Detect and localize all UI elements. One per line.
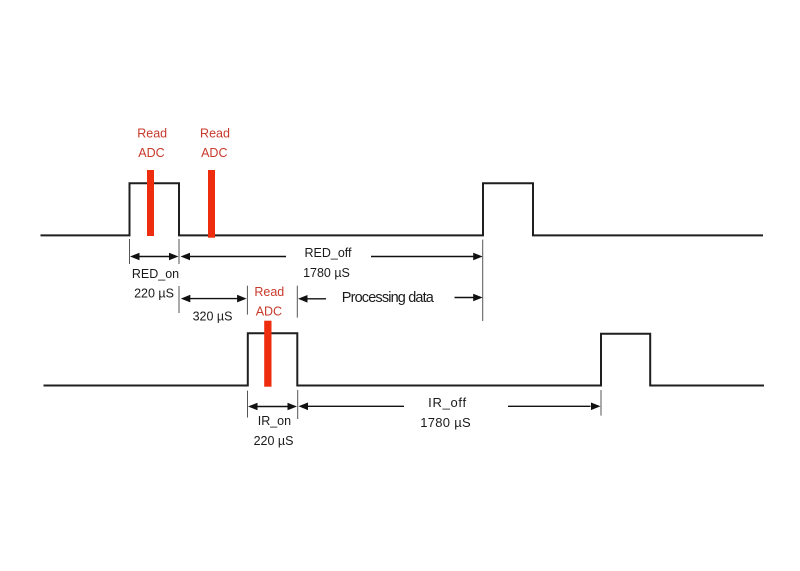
label Read ADC 3 (IR)	[254, 285, 284, 318]
svg-text:320 µS: 320 µS	[193, 310, 233, 324]
svg-text:Read: Read	[200, 126, 230, 140]
extension tick below IR pulse2 rise	[600, 390, 602, 416]
extension tick below IR pulse left edge	[247, 391, 249, 418]
label Read ADC 2	[200, 126, 230, 160]
red ADC sample bar 3 (IR)	[264, 321, 271, 387]
svg-text:RED_on: RED_on	[132, 267, 179, 281]
red ADC sample bar 1	[147, 170, 154, 236]
wire RED waveform	[41, 183, 764, 235]
svg-text:1780 µS: 1780 µS	[303, 266, 350, 280]
dimension arrow IR_off (left head + line, text gap, line + right head)	[299, 403, 601, 411]
extension tick for 320µS left	[178, 286, 180, 313]
svg-text:IR_on: IR_on	[258, 414, 291, 428]
svg-text:220 µS: 220 µS	[254, 434, 294, 448]
arrow processing-data left	[298, 295, 326, 303]
extension tick below RED pulse1 left edge	[129, 239, 131, 264]
extension tick below IR pulse right edge	[297, 390, 299, 419]
svg-text:ADC: ADC	[201, 146, 227, 160]
svg-text:ADC: ADC	[138, 146, 164, 160]
dimension arrow RED_off (left head + line, text gap, line + right head)	[181, 253, 483, 261]
svg-text:220 µS: 220 µS	[134, 287, 174, 301]
extension tick at RED pulse2 rise (long)	[482, 240, 484, 321]
dimension arrow IR_on (double)	[248, 403, 297, 411]
red ADC sample bar 2	[208, 170, 215, 238]
extension tick for 320µS right	[246, 286, 248, 315]
extension tick at IR pulse fall (processing data left)	[296, 286, 298, 318]
wire IR waveform	[44, 333, 765, 385]
svg-text:ADC: ADC	[256, 304, 282, 318]
dimension arrow RED_on (double)	[130, 253, 179, 261]
svg-text:IR_off: IR_off	[428, 395, 467, 410]
label Read ADC 1	[137, 126, 167, 160]
arrow processing-data right	[455, 294, 483, 302]
dimension arrow 320 µS (double)	[181, 295, 247, 303]
svg-text:Read: Read	[254, 285, 284, 299]
extension tick below RED pulse1 right edge (upper)	[178, 239, 180, 264]
svg-text:RED_off: RED_off	[304, 246, 352, 260]
svg-text:Read: Read	[137, 126, 167, 140]
svg-text:Processing data: Processing data	[342, 290, 435, 306]
svg-text:1780 µS: 1780 µS	[420, 415, 471, 430]
